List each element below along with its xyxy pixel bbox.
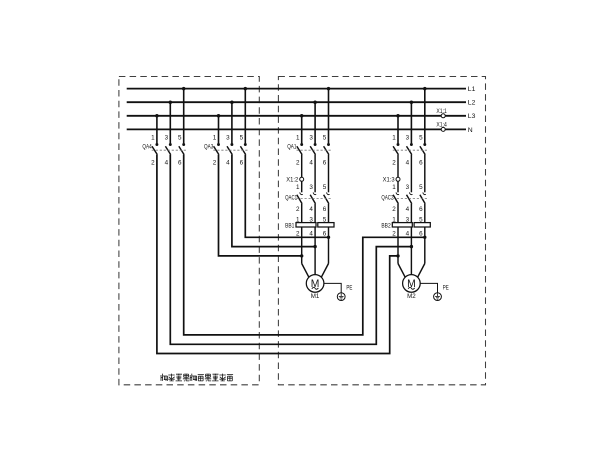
svg-text:N: N <box>468 127 473 134</box>
svg-text:1: 1 <box>392 134 396 141</box>
svg-text:1: 1 <box>213 134 217 141</box>
svg-text:4: 4 <box>309 230 313 237</box>
svg-text:4: 4 <box>406 230 410 237</box>
svg-text:L3: L3 <box>468 113 476 120</box>
svg-text:5: 5 <box>178 134 182 141</box>
svg-text:6: 6 <box>178 160 182 167</box>
svg-text:6: 6 <box>419 206 423 213</box>
svg-text:QA4: QA4 <box>142 143 152 150</box>
svg-text:3: 3 <box>309 184 313 191</box>
svg-text:5: 5 <box>419 184 423 191</box>
svg-text:6: 6 <box>323 160 327 167</box>
svg-text:X1:2: X1:2 <box>286 177 299 184</box>
svg-text:2: 2 <box>392 230 396 237</box>
svg-text:5: 5 <box>419 216 423 223</box>
svg-text:2: 2 <box>296 230 300 237</box>
svg-text:2: 2 <box>213 160 217 167</box>
svg-text:4: 4 <box>226 160 230 167</box>
svg-text:3: 3 <box>226 134 230 141</box>
svg-text:4: 4 <box>406 160 410 167</box>
svg-text:BB1: BB1 <box>285 222 295 229</box>
svg-text:1: 1 <box>392 184 396 191</box>
svg-text:3: 3 <box>309 134 313 141</box>
svg-text:3: 3 <box>406 216 410 223</box>
svg-text:PE: PE <box>443 284 449 291</box>
svg-text:4: 4 <box>309 160 313 167</box>
svg-text:2: 2 <box>296 206 300 213</box>
svg-text:1: 1 <box>392 216 396 223</box>
svg-text:2: 2 <box>392 160 396 167</box>
svg-text:2: 2 <box>392 206 396 213</box>
svg-text:X1:4: X1:4 <box>436 121 447 128</box>
svg-text:5: 5 <box>240 134 244 141</box>
svg-text:6: 6 <box>419 230 423 237</box>
svg-text:6: 6 <box>323 230 327 237</box>
svg-text:PE: PE <box>346 284 352 291</box>
svg-text:QAC1: QAC1 <box>285 194 297 201</box>
svg-text:L2: L2 <box>468 100 476 107</box>
svg-text:4: 4 <box>165 160 169 167</box>
svg-text:1: 1 <box>296 134 300 141</box>
svg-text:5: 5 <box>323 134 327 141</box>
svg-text:1: 1 <box>151 134 155 141</box>
svg-text:QA3: QA3 <box>204 143 214 150</box>
svg-text:5: 5 <box>419 134 423 141</box>
svg-text:5: 5 <box>323 216 327 223</box>
svg-text:3: 3 <box>406 134 410 141</box>
svg-text:M1: M1 <box>311 293 320 300</box>
svg-text:3: 3 <box>165 134 169 141</box>
svg-text:BB2: BB2 <box>381 222 391 229</box>
svg-text:3: 3 <box>406 184 410 191</box>
svg-text:3: 3 <box>309 216 313 223</box>
svg-text:4: 4 <box>406 206 410 213</box>
svg-text:6: 6 <box>419 160 423 167</box>
svg-text:QAC2: QAC2 <box>381 194 393 201</box>
svg-text:1: 1 <box>296 184 300 191</box>
svg-text:X1:3: X1:3 <box>383 177 396 184</box>
svg-text:5: 5 <box>323 184 327 191</box>
svg-text:L1: L1 <box>468 86 476 93</box>
svg-text:4: 4 <box>309 206 313 213</box>
svg-text:M2: M2 <box>407 293 416 300</box>
svg-text:QA1: QA1 <box>287 143 297 150</box>
svg-text:2: 2 <box>296 160 300 167</box>
svg-text:1: 1 <box>296 216 300 223</box>
svg-text:X1:1: X1:1 <box>436 108 447 115</box>
svg-text:6: 6 <box>240 160 244 167</box>
svg-text:6: 6 <box>323 206 327 213</box>
svg-text:2: 2 <box>151 160 155 167</box>
